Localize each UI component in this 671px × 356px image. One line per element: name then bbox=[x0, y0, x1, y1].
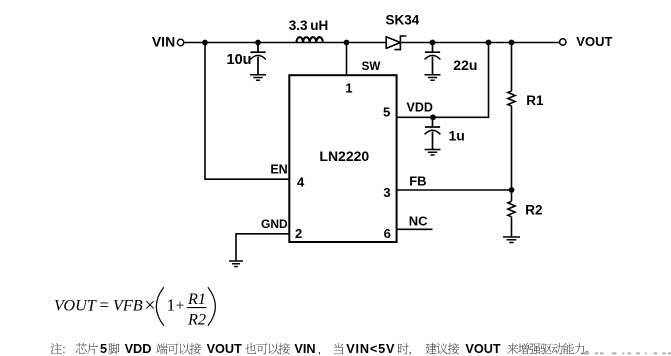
junction: R1 tap bbox=[509, 40, 515, 46]
wire: FB node to R2 top bbox=[511, 190, 513, 201]
svg-text:5: 5 bbox=[383, 105, 390, 120]
wire: NC pin 6 stub bbox=[397, 228, 433, 230]
junction: VDD tap bbox=[486, 40, 492, 46]
wire: R2 bottom to ground bbox=[511, 217, 513, 237]
svg-text:1u: 1u bbox=[449, 128, 465, 144]
svg-text:R2: R2 bbox=[525, 202, 542, 217]
svg-text:VOUT: VOUT bbox=[576, 34, 612, 49]
note text (Chinese): 注：芯片 5 脚 VDD 端可以接 VOUT 也可以接 VIN，当 VIN&lt;5V 时，建议接 VOUT 来增强驱动能力。 bbox=[51, 343, 65, 354]
terminal VOUT bbox=[560, 39, 566, 45]
wire: R1 bottom to FB node bbox=[511, 106, 513, 190]
svg-text:22u: 22u bbox=[453, 57, 477, 73]
svg-text:R1: R1 bbox=[526, 93, 544, 108]
svg-text:VOUT: VOUT bbox=[465, 342, 500, 356]
svg-text:5: 5 bbox=[100, 342, 107, 356]
svg-text:1: 1 bbox=[345, 81, 352, 96]
svg-text:VDD: VDD bbox=[125, 342, 152, 356]
wire: VOUT rail down to R1 top bbox=[511, 43, 513, 92]
svg-text:SW: SW bbox=[362, 60, 381, 73]
wire: EN net from VIN rail down to pin 4 bbox=[205, 43, 289, 180]
formula big parens bbox=[156, 287, 164, 325]
faint cut-off text fragments bottom right bbox=[583, 352, 671, 354]
diode SK34 (schottky) bbox=[386, 37, 400, 49]
wire: FB pin 3 to divider node bbox=[397, 189, 512, 191]
svg-text:VIN: VIN bbox=[152, 33, 175, 49]
svg-text:2: 2 bbox=[295, 226, 302, 241]
svg-text:NC: NC bbox=[409, 214, 428, 229]
svg-text:EN: EN bbox=[270, 163, 287, 177]
svg-text:FB: FB bbox=[409, 174, 426, 189]
junction: C2 tap bbox=[430, 40, 436, 46]
svg-text:×: × bbox=[144, 294, 155, 316]
capacitor 10u bbox=[257, 43, 259, 53]
op-amp/IC U1 LN2220 body bbox=[289, 75, 396, 242]
svg-text:6: 6 bbox=[384, 226, 391, 241]
wire: VOUT rail down to VDD pin 5 bbox=[397, 43, 489, 118]
svg-text:VIN: VIN bbox=[294, 342, 315, 356]
svg-text:+: + bbox=[176, 298, 185, 315]
junction: VIN/EN node bbox=[202, 40, 208, 46]
svg-text:R2: R2 bbox=[187, 310, 206, 328]
wire: VIN rail to diode anode bbox=[184, 42, 386, 44]
svg-text:=: = bbox=[100, 296, 110, 315]
wire: SW node drop to pin 1 bbox=[346, 43, 348, 76]
wire: diode cathode to VOUT terminal bbox=[401, 42, 560, 44]
svg-text:GND: GND bbox=[261, 217, 288, 231]
svg-text:3.3 uH: 3.3 uH bbox=[289, 18, 328, 33]
wire: GND pin 2 to ground bbox=[236, 234, 289, 261]
svg-text:R1: R1 bbox=[187, 290, 206, 308]
svg-text:1: 1 bbox=[167, 296, 176, 315]
svg-text:SK34: SK34 bbox=[386, 13, 420, 28]
svg-text:3: 3 bbox=[383, 185, 390, 200]
ground below R2 bbox=[503, 237, 520, 243]
junction: VDD / C3 tap bbox=[430, 114, 436, 120]
capacitor 22u bbox=[432, 43, 434, 53]
junction: C1 tap bbox=[255, 40, 261, 46]
svg-text:VOUT: VOUT bbox=[207, 342, 242, 356]
resistor R1 bbox=[508, 91, 515, 106]
svg-text:VIN<5V: VIN<5V bbox=[346, 342, 395, 356]
svg-text:LN2220: LN2220 bbox=[319, 148, 369, 164]
ground below GND pin bbox=[229, 261, 243, 267]
terminal VIN bbox=[177, 39, 183, 45]
junction: SW node bbox=[344, 40, 350, 46]
svg-text:VDD: VDD bbox=[407, 101, 433, 115]
svg-text:VFB: VFB bbox=[113, 297, 143, 315]
svg-text:10u: 10u bbox=[227, 52, 252, 68]
svg-text:VOUT: VOUT bbox=[54, 297, 97, 315]
junction: FB divider node bbox=[509, 187, 515, 193]
inductor 3.3uH bbox=[296, 37, 322, 42]
svg-text:4: 4 bbox=[297, 175, 305, 190]
resistor R2 bbox=[508, 201, 515, 217]
capacitor 1u bbox=[432, 117, 434, 127]
